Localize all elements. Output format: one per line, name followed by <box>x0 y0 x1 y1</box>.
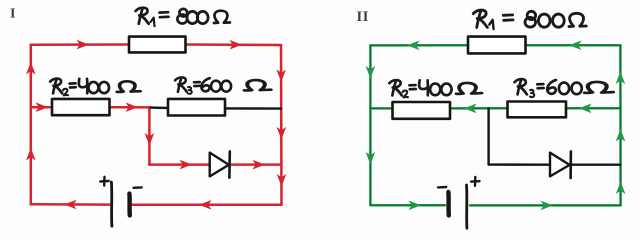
battery II positive long plate <box>465 185 468 228</box>
battery I minus sign <box>134 186 142 188</box>
arrow: right rail II up #2 <box>616 129 626 142</box>
arrow: top rail II left #1 <box>407 41 420 51</box>
svg-text:I: I <box>10 6 15 21</box>
arrow: left rail II down #1 <box>366 66 376 79</box>
diode D (circuit I) cathode bar <box>228 151 231 177</box>
resistor R2 (circuit II) box <box>393 102 451 119</box>
wire: left rail I <box>30 45 33 205</box>
wire: right rail II core <box>619 46 621 206</box>
arrow: bottom rail I left #2 <box>199 200 212 210</box>
wire: black segment R3 to right rail I <box>225 107 281 110</box>
arrow: left rail II down #2 <box>366 152 376 165</box>
label R1 = 800 ohm (circuit II) <box>473 10 586 29</box>
resistor R2 (circuit I) box <box>52 99 110 115</box>
wire: middle branch II core b <box>449 107 508 109</box>
battery II minus sign <box>438 186 446 188</box>
battery I plus sign <box>100 177 108 186</box>
arrow: right rail II up #3 <box>616 182 626 195</box>
wire: black segment junction to R3 I <box>151 106 169 109</box>
wire: black diode row II right segment <box>571 163 620 165</box>
wire: top rail II left of R1 <box>370 44 468 47</box>
arrow: middle branch I right #1 <box>36 102 49 112</box>
resistor R1 (circuit I) box <box>129 37 186 53</box>
wire: middle branch II core a <box>370 107 392 109</box>
wire: right rail I <box>280 45 283 205</box>
arrow: middle branch II left #1 <box>464 104 477 114</box>
arrow: middle branch I right #2 <box>126 102 139 112</box>
arrow: bottom rail I left #1 <box>64 200 77 210</box>
wire: drop from junction to diode row I <box>148 107 151 164</box>
arrow: right rail I down #2 <box>277 127 287 140</box>
wire: bottom rail II left of battery <box>370 204 445 207</box>
wire: middle branch II from left rail to R2 <box>370 107 392 110</box>
wire: bottom rail II core left <box>370 204 445 206</box>
resistor R1 (circuit II) box <box>468 37 526 54</box>
battery II negative short plate <box>446 192 451 215</box>
arrow: right rail I down #3 <box>277 174 287 187</box>
diode D (circuit II) triangle <box>550 153 570 177</box>
arrow: drop wire I down <box>145 133 155 146</box>
wire: top rail II core right <box>526 44 621 46</box>
wire: diode row I right segment <box>230 163 281 166</box>
arrow: diode row I right #2 <box>253 160 266 170</box>
arrow: bottom rail II right #2 <box>541 201 554 211</box>
arrow: left rail I up #2 <box>26 148 36 161</box>
arrow: diode row I right #1 <box>180 160 193 170</box>
wire: bottom rail I left of battery <box>31 203 110 206</box>
resistor R3 (circuit II) box <box>508 102 567 118</box>
wire: left rail II core <box>369 46 371 205</box>
wire: bottom rail II right of battery <box>470 204 621 207</box>
arrow: left rail I up #1 <box>26 62 36 75</box>
wire: top rail II core left <box>370 44 468 46</box>
arrow: top rail I right #1 <box>77 40 90 50</box>
wire: right rail II <box>619 45 622 205</box>
arrow: right rail II up #1 <box>616 72 626 85</box>
arrow: top rail I right #2 <box>230 40 243 50</box>
diode D (circuit II) cathode bar <box>569 151 572 178</box>
wire: bottom rail II core right <box>470 204 621 206</box>
battery II plus sign <box>471 177 479 186</box>
battery I negative short plate <box>127 194 132 216</box>
arrow: middle branch II left #2 <box>579 104 592 114</box>
wire: middle branch II from R3 to right rail <box>566 107 620 110</box>
wire: top rail I left of R1 <box>31 43 129 46</box>
wire: middle branch II core c <box>566 107 620 109</box>
wire: bottom rail I right of battery <box>131 204 282 207</box>
wire: top rail I right of R1 <box>186 43 282 46</box>
wire: middle branch II from R2 to R3 <box>449 107 508 110</box>
arrow: right rail I down #1 <box>276 70 286 83</box>
wire: middle branch I from R2 to junction <box>110 106 151 109</box>
wire: middle branch I from left rail to R2 <box>31 106 52 109</box>
wire: top rail II right of R1 <box>526 44 621 47</box>
label R2 = 400 ohm (circuit I) <box>50 79 140 96</box>
wire: black drop from middle branch II <box>487 108 489 164</box>
label R3 = 600 ohm (circuit II) <box>515 79 613 97</box>
label R3 = 600 ohm (circuit I) <box>175 77 271 94</box>
label R2 = 400 ohm (circuit II) <box>389 80 481 97</box>
battery I positive long plate <box>110 182 113 226</box>
resistor R3 (circuit I) box <box>168 99 225 116</box>
arrow: top rail II left #2 <box>569 40 582 50</box>
label R1 = 800 ohm (circuit I) <box>136 8 230 26</box>
diode D (circuit I) triangle <box>210 153 229 177</box>
arrow: bottom rail II right #1 <box>409 201 422 211</box>
svg-text:II: II <box>357 9 370 25</box>
wire: black diode row II left segment <box>489 163 550 165</box>
wire: diode row I left segment <box>149 163 209 166</box>
wire: left rail II <box>369 45 372 205</box>
